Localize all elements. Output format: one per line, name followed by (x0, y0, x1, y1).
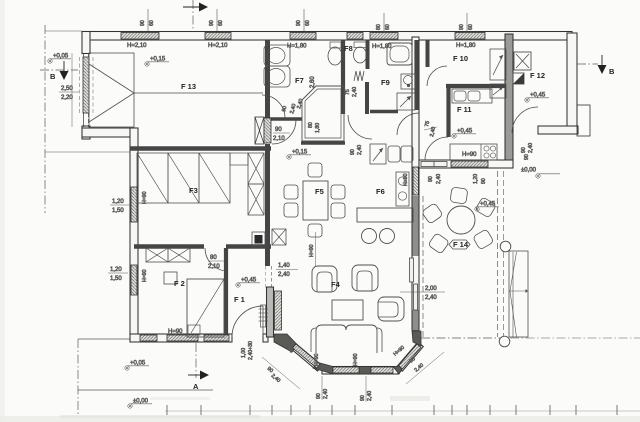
svg-text:90: 90 (209, 20, 215, 26)
wall F11 south band (419, 160, 513, 168)
svg-text:H=2,10: H=2,10 (208, 43, 228, 49)
interior wall F2 north (134, 244, 204, 249)
shower F9 (387, 43, 412, 65)
svg-text:+0,15: +0,15 (292, 150, 308, 156)
svg-text:+0,45: +0,45 (480, 202, 496, 208)
bay corner pier bottom-left (313, 363, 333, 375)
svg-text:F 14: F 14 (453, 240, 469, 249)
level mark +0,05 left (48, 54, 71, 64)
svg-text:+0,05: +0,05 (130, 361, 146, 367)
interior wall tub south (301, 141, 345, 145)
interior wall F8/F9 (366, 40, 370, 69)
interior wall F10/F11 (446, 84, 505, 88)
svg-text:80: 80 (376, 24, 382, 30)
bay pier right (412, 331, 421, 346)
terrace F14 west dashed (422, 196, 424, 338)
toilet F8 (354, 42, 366, 48)
svg-text:1,50: 1,50 (110, 276, 122, 282)
svg-text:2,40+30: 2,40+30 (248, 341, 254, 360)
interior wall F2/F1 (224, 248, 228, 337)
kitchen side counter F6 (396, 172, 409, 206)
svg-text:2,40: 2,40 (352, 87, 358, 97)
svg-text:F 12: F 12 (530, 71, 545, 80)
bed F2 (187, 279, 224, 337)
svg-text:1,80: 1,80 (315, 123, 321, 133)
svg-text:1,20: 1,20 (110, 267, 122, 273)
level mark pm0,00 bottom left (128, 399, 152, 409)
level mark +0,45 F12 (525, 93, 549, 103)
window south 1 (140, 335, 157, 341)
terrace F14 south dash-dot (421, 337, 500, 339)
svg-text:H=90: H=90 (353, 353, 359, 366)
svg-text:90: 90 (360, 395, 366, 401)
svg-text:H=90: H=90 (142, 191, 148, 204)
door arc F10 (427, 66, 447, 86)
svg-text:60: 60 (305, 20, 311, 26)
sliding door east living (410, 258, 414, 282)
window F8 north (347, 33, 363, 40)
svg-text:H=90: H=90 (309, 244, 315, 257)
hexagon label box F14 (449, 240, 470, 249)
level mark +0,05 terrace (125, 361, 149, 371)
svg-text:+0,45: +0,45 (241, 278, 257, 284)
window F9 north (370, 33, 398, 40)
garage door panel F13 (89, 53, 134, 127)
interior wall F3 north (130, 146, 271, 151)
svg-text:60: 60 (218, 20, 224, 26)
svg-text:F7: F7 (295, 76, 304, 85)
wardrobe F2 (146, 248, 190, 262)
svg-text:H=1,80: H=1,80 (372, 44, 392, 50)
wall bay bottom band (322, 367, 398, 375)
basin F7 a (264, 45, 290, 66)
wall exterior top (82, 32, 572, 41)
window F10 north (455, 33, 485, 40)
interior wall F11 west (446, 86, 450, 137)
terrace left bottom line (78, 389, 213, 391)
door piece hatched garage-hall (264, 118, 271, 143)
svg-text:60: 60 (385, 24, 391, 30)
wall bay diagonal right (397, 342, 423, 371)
svg-text:B: B (50, 72, 56, 81)
svg-text:+0,15: +0,15 (150, 57, 166, 63)
svg-text:H=2,10: H=2,10 (127, 43, 147, 49)
svg-text:H=90: H=90 (462, 152, 477, 158)
svg-text:H=90: H=90 (392, 345, 406, 358)
section B left dash-dot (40, 69, 78, 71)
wall F12 south (538, 126, 578, 134)
svg-text:2,10: 2,10 (273, 136, 285, 142)
svg-text:90: 90 (296, 20, 302, 26)
window F11 south (451, 161, 488, 167)
section A top arrow (183, 6, 200, 8)
svg-text:±0,00: ±0,00 (521, 168, 537, 174)
terrace left top line (78, 338, 131, 340)
window west F2 (131, 265, 137, 295)
kitchen sinks F6 (388, 146, 400, 162)
svg-text:90: 90 (521, 147, 527, 153)
window bay bottom 1 (333, 367, 359, 373)
svg-text:H=90: H=90 (314, 353, 320, 366)
counter F11 bottom with stove (450, 144, 497, 160)
svg-text:2,40: 2,40 (357, 145, 363, 155)
bay corner pier left (274, 334, 298, 352)
armchair F4 b (352, 265, 378, 291)
interior wall garage east / F7 west (265, 40, 270, 118)
interior wall F1 east (267, 287, 274, 337)
door arc F7 (262, 95, 285, 118)
dim 90/240 bay bottom 1 (321, 376, 323, 400)
basin F9 (401, 74, 415, 89)
window east dining H=90 (413, 167, 419, 195)
svg-text:2,10: 2,10 (208, 264, 220, 270)
vent box F9 (397, 93, 415, 110)
bottom scale line (165, 410, 640, 412)
terrace F14 east dashed (497, 171, 499, 337)
svg-text:1,40: 1,40 (278, 263, 290, 269)
svg-text:1,20: 1,20 (473, 174, 479, 184)
garage door opening west (83, 53, 85, 127)
zigzag symbol F8 (354, 71, 364, 81)
round table F14 (447, 206, 475, 234)
wardrobe F10 b (490, 84, 506, 98)
interior wall F3 east (265, 144, 270, 266)
radiator F1 (261, 305, 266, 327)
counter F11 top (452, 89, 492, 103)
section A bottom arrow (188, 374, 201, 376)
door arc entrance F1 (232, 306, 263, 337)
interior glazing F1/F4 hatched (275, 291, 282, 330)
window F7 north (290, 33, 316, 40)
kitchen top arrow box F6 (370, 144, 386, 164)
interior wall F8-F9 south (370, 110, 398, 114)
window west F3 (131, 187, 137, 222)
bay pier bottom-right (393, 361, 407, 374)
section A top dash-dot (192, 0, 194, 31)
svg-text:1,20: 1,20 (112, 199, 124, 205)
wall east living/dining band (412, 37, 419, 330)
section B left arrow (63, 61, 65, 72)
level mark pm0,00 F12 outside (521, 168, 560, 179)
section B right dash-dot (577, 63, 598, 65)
door arc F11 (425, 137, 448, 160)
dashed opening F5-F1 passage (271, 266, 273, 288)
door arc F2 (205, 248, 228, 271)
chairs F14 (450, 187, 468, 204)
window bay diag left (293, 344, 320, 368)
level mark +0,45 F11 (452, 129, 476, 139)
sofa F4 (316, 325, 377, 353)
basin F7 b (264, 66, 290, 87)
svg-text:B: B (609, 67, 615, 76)
svg-text:F 11: F 11 (457, 105, 472, 114)
window south 2 (167, 335, 198, 341)
svg-text:1,50: 1,50 (112, 208, 124, 214)
svg-text:H=90: H=90 (168, 329, 183, 335)
axis line left top (45, 30, 82, 32)
section A bottom dash-dot (195, 343, 197, 378)
terrace left vertical dash-dot (77, 339, 79, 414)
wardrobe F10 a (490, 49, 506, 80)
svg-text:H=90: H=90 (142, 269, 148, 282)
kitchen bar F6 (357, 208, 413, 222)
window bay bottom 2 (371, 367, 393, 373)
svg-text:1,00: 1,00 (241, 348, 247, 358)
cabinet F3 east (248, 153, 264, 215)
door arc F9 (397, 113, 419, 135)
half wall H=90 note F5/F4 (315, 232, 317, 266)
svg-text:2,40: 2,40 (413, 362, 425, 373)
armchair F4 a (312, 266, 337, 292)
svg-text:2,40: 2,40 (528, 143, 534, 153)
svg-text:2,40: 2,40 (296, 98, 304, 109)
svg-text:2,40: 2,40 (270, 373, 282, 384)
interior wall F9 east (414, 40, 418, 110)
svg-text:90: 90 (481, 178, 487, 184)
chimney X-box hall top (255, 117, 264, 144)
svg-text:F4: F4 (331, 280, 341, 289)
svg-text:90: 90 (281, 105, 288, 112)
svg-text:2,40: 2,40 (425, 295, 437, 301)
section B right arrow (601, 55, 603, 66)
svg-text:2,40: 2,40 (367, 391, 373, 401)
svg-text:F3: F3 (189, 186, 198, 195)
column terrace NE (500, 241, 511, 252)
flue box black (252, 232, 265, 246)
svg-text:A: A (193, 382, 199, 391)
wall F12 east (567, 33, 577, 133)
svg-text:F5: F5 (315, 187, 324, 196)
interior wall F7 south (264, 117, 302, 121)
column terrace SE (499, 336, 510, 347)
svg-text:F 10: F 10 (453, 54, 468, 63)
svg-text:90: 90 (140, 20, 146, 26)
garage west window sill dashes (79, 57, 81, 113)
wall west (130, 128, 138, 341)
dim ext line window 4 top (383, 13, 385, 32)
svg-text:2,50: 2,50 (61, 86, 73, 92)
svg-text:75: 75 (345, 89, 351, 95)
window south 3 (204, 335, 229, 341)
level mark +0,15 garage (145, 57, 169, 67)
bay pier bottom-mid (359, 367, 371, 375)
svg-text:2,00: 2,00 (425, 286, 437, 292)
svg-text:2,60: 2,60 (310, 76, 316, 88)
svg-text:75: 75 (424, 120, 431, 127)
wardrobe F3 (137, 153, 230, 203)
half box F12 (513, 73, 524, 84)
window garage north 1 (121, 33, 159, 40)
svg-text:2,40: 2,40 (278, 272, 290, 278)
bathtub F7 (302, 86, 344, 141)
svg-text:90: 90 (275, 127, 282, 133)
table F2 (164, 272, 177, 284)
svg-text:90: 90 (316, 393, 322, 399)
svg-text:F9: F9 (381, 78, 390, 87)
axis dash-dot left vertical (44, 25, 46, 213)
toilet F7 (330, 42, 341, 48)
svg-text:2,40: 2,40 (436, 174, 442, 184)
stools (362, 229, 377, 244)
svg-text:2,40: 2,40 (323, 389, 329, 399)
level mark +0,45 F14 (475, 202, 499, 212)
axis right of terrace (510, 337, 640, 339)
svg-text:90: 90 (459, 24, 465, 30)
axis line left y152 (45, 151, 130, 153)
svg-text:80: 80 (210, 255, 217, 261)
window garage west long (83, 57, 89, 113)
svg-text:±0,00: ±0,00 (133, 399, 149, 405)
door arc F12 (512, 107, 538, 133)
F12 step outside (577, 105, 590, 136)
svg-text:90: 90 (428, 176, 434, 182)
window garage north 2 (205, 33, 231, 40)
svg-text:60: 60 (468, 24, 474, 30)
door leaf entrance (262, 306, 264, 337)
dining table F5 (303, 181, 328, 220)
svg-text:H=90: H=90 (403, 173, 409, 186)
svg-text:60: 60 (149, 20, 155, 26)
dim 90/240 bay bottom 2 (365, 376, 367, 402)
window bay diag right (399, 344, 421, 369)
door F5 to terrace (glazed) (421, 162, 447, 167)
dim ext line window 1 top (147, 9, 149, 31)
boiler box F12 (514, 52, 531, 70)
door arc F8 (348, 115, 372, 139)
svg-text:H=1,80: H=1,80 (287, 44, 307, 50)
svg-text:90: 90 (350, 149, 356, 155)
dining chairs (284, 185, 298, 199)
dim ext line window 3 top (303, 9, 305, 31)
bottom scale ticks (167, 405, 617, 415)
svg-text:2,40: 2,40 (429, 126, 437, 137)
svg-text:+0,45: +0,45 (457, 129, 473, 135)
level mark +0,15 hall (287, 150, 311, 160)
svg-text:F8: F8 (344, 44, 353, 53)
svg-text:F 2: F 2 (174, 279, 185, 288)
wall garage south (82, 128, 137, 137)
svg-text:F 1: F 1 (234, 295, 245, 304)
armchair F4 c (378, 297, 404, 321)
coffee table F4 (332, 300, 363, 320)
dim ext line window 5 top (466, 13, 468, 32)
flue box X (272, 229, 286, 245)
wall south F2/F1 (130, 334, 232, 342)
svg-text:F6: F6 (376, 187, 385, 196)
svg-text:F 13: F 13 (181, 82, 196, 91)
interior wall F7/F8 (341, 40, 345, 114)
svg-text:+0,05: +0,05 (53, 54, 69, 60)
level mark +0,45 F1 (236, 278, 260, 288)
exterior stairs east (509, 251, 528, 337)
door arc garage-hall (272, 120, 296, 144)
svg-text:80: 80 (308, 122, 314, 128)
dim ext line window 2 top (216, 9, 218, 31)
svg-text:2,20: 2,20 (61, 95, 73, 101)
wall garage west (82, 32, 90, 54)
wall bay diagonal left (290, 342, 323, 371)
svg-text:+0,45: +0,45 (530, 93, 546, 99)
svg-text:H=1,80: H=1,80 (456, 43, 476, 49)
svg-text:90: 90 (524, 154, 530, 160)
wall east column F10-F11 (505, 34, 513, 168)
interior wall F10 west (426, 40, 430, 67)
